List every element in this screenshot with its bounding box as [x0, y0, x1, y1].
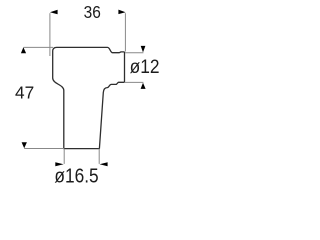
arrow dia16.5 right — [55, 162, 63, 166]
svg-text:47: 47 — [15, 83, 34, 103]
extension line dia12 top — [125, 52, 143, 54]
extension line dia16.5 left — [63, 149, 65, 164]
arrow 47 up — [21, 47, 26, 53]
arrow dia12 down — [141, 46, 146, 53]
extension line dia12 bottom — [125, 81, 143, 83]
extension line 47 bottom — [24, 148, 64, 150]
svg-text:ø16.5: ø16.5 — [54, 164, 98, 187]
arrow dia12 up — [141, 83, 146, 89]
arrow 36 right — [118, 10, 125, 15]
svg-text:ø12: ø12 — [130, 57, 160, 78]
extension line 36 left — [49, 13, 51, 56]
spark plug cap outline — [53, 47, 125, 148]
extension line 47 top — [24, 46, 53, 48]
arrow 36 left — [50, 10, 58, 15]
arrow 47 down — [22, 142, 27, 148]
extension line dia16.5 right — [98, 149, 100, 164]
arrow dia16.5 left — [100, 162, 108, 166]
svg-text:36: 36 — [84, 2, 101, 22]
extension line 36 right — [124, 13, 126, 51]
